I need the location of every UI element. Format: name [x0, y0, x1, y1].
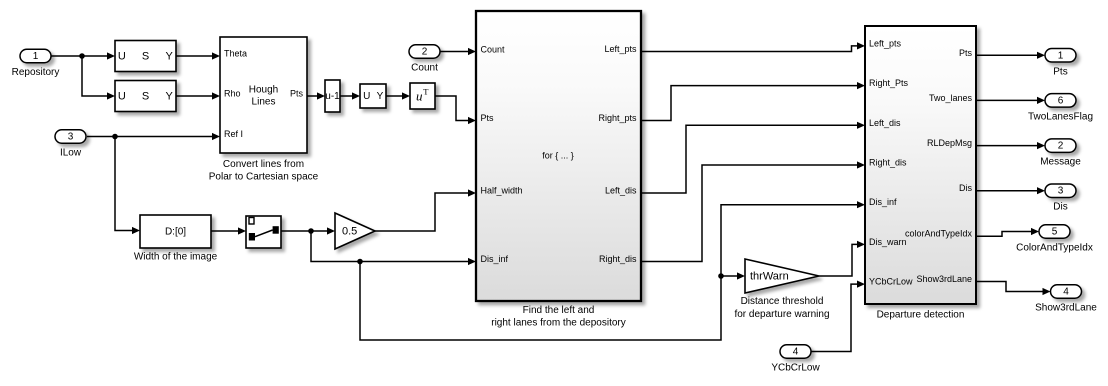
wire Show3rdLane out	[976, 282, 1043, 292]
svg-text:Left_pts: Left_pts	[869, 38, 902, 48]
svg-text:Half_width: Half_width	[481, 186, 523, 196]
selector block U Y	[360, 84, 386, 108]
svg-text:Message: Message	[1040, 157, 1081, 168]
wire Transpose to Pts input	[435, 96, 468, 121]
svg-text:Width of the image: Width of the image	[134, 252, 218, 263]
arrow into port Dis	[1037, 187, 1045, 194]
selector U S Y block 1	[115, 41, 176, 72]
wire Repository to Selector1	[51, 55, 107, 57]
arrow into Departure Right_dis	[857, 161, 865, 168]
svg-text:Show3rdLane: Show3rdLane	[916, 274, 972, 284]
wire RLDepMsg out	[976, 145, 1037, 147]
svg-text:Distance threshold: Distance threshold	[741, 296, 824, 307]
gain block 0.5	[335, 213, 375, 249]
svg-text:2: 2	[422, 47, 428, 58]
svg-text:Right_dis: Right_dis	[599, 254, 637, 264]
arrow into for-block Half_width	[468, 189, 476, 196]
svg-text:Pts: Pts	[481, 113, 495, 123]
junction B on Dis_inf wire	[357, 259, 363, 265]
wire to thrWarn	[721, 275, 737, 277]
outport 1 Pts	[1045, 49, 1076, 63]
wire Selector1 to Theta	[176, 55, 212, 57]
arrow into port Pts	[1037, 52, 1045, 59]
arrow into for-block Count	[468, 48, 476, 55]
arrow into Ref I	[212, 133, 220, 140]
wire Selector3 to Transpose	[386, 95, 402, 97]
svg-text:Dis_inf: Dis_inf	[481, 254, 509, 264]
svg-text:Lines: Lines	[252, 97, 276, 108]
arrow into Departure Dis_inf	[857, 201, 865, 208]
manual switch block	[246, 216, 281, 248]
svg-text:RLDepMsg: RLDepMsg	[927, 138, 972, 148]
wire Dis out	[976, 190, 1037, 192]
wire down to Dis_inf of for-block	[311, 231, 468, 262]
arrow into port Show3rdLane	[1043, 288, 1051, 295]
svg-text:Two_lanes: Two_lanes	[929, 93, 973, 103]
svg-text:Departure detection: Departure detection	[877, 310, 965, 321]
svg-text:4: 4	[1063, 287, 1069, 298]
svg-text:right lanes from the depositor: right lanes from the depository	[491, 318, 626, 329]
svg-text:S: S	[142, 51, 149, 63]
svg-text:Right_dis: Right_dis	[869, 158, 907, 168]
arrow into Gain 0.5	[327, 227, 335, 234]
wire Pts out	[976, 54, 1037, 56]
svg-text:5: 5	[1052, 227, 1058, 238]
svg-text:Ref I: Ref I	[224, 129, 243, 139]
arrow into for-block Dis_inf	[468, 258, 476, 265]
svg-text:Pts: Pts	[290, 89, 304, 99]
svg-text:Pts: Pts	[959, 48, 973, 58]
svg-text:1: 1	[33, 51, 39, 62]
svg-text:U: U	[118, 51, 126, 63]
arrow into port Message	[1037, 142, 1045, 149]
svg-text:u-1: u-1	[325, 91, 340, 102]
svg-text:Theta: Theta	[224, 49, 247, 59]
svg-text:3: 3	[68, 132, 74, 143]
svg-text:TwoLanesFlag: TwoLanesFlag	[1028, 111, 1093, 122]
svg-text:u: u	[416, 89, 423, 104]
svg-text:U: U	[118, 91, 126, 103]
arrow into Selector2	[107, 92, 115, 99]
junction on vertical to thrWarn	[718, 273, 724, 279]
svg-text:Dis_warn: Dis_warn	[869, 237, 907, 247]
arrow into Departure YCbCrLow	[857, 281, 865, 288]
junction Repository branch	[79, 53, 85, 59]
svg-text:0.5: 0.5	[342, 226, 357, 238]
wire YCbCrLow port to Departure	[811, 284, 857, 351]
arrow into Bias u-1	[317, 92, 325, 99]
wire Left_pts	[641, 46, 857, 52]
svg-text:2: 2	[1058, 141, 1064, 152]
svg-text:Repository: Repository	[12, 67, 60, 78]
width block D:[0]	[140, 215, 211, 248]
svg-text:Y: Y	[166, 51, 174, 63]
wire Two_lanes out	[976, 99, 1037, 101]
svg-text:Polar to Cartesian space: Polar to Cartesian space	[209, 172, 319, 183]
arrow into Theta	[212, 52, 220, 59]
svg-text:thrWarn: thrWarn	[750, 271, 789, 283]
arrow into Width block	[132, 227, 140, 234]
inport 4 YCbCrLow	[780, 345, 811, 359]
svg-text:Pts: Pts	[1053, 66, 1067, 77]
wire branch to Selector2	[82, 56, 107, 96]
svg-text:Count: Count	[411, 63, 438, 74]
svg-text:ColorAndTypeIdx: ColorAndTypeIdx	[1016, 243, 1093, 254]
arrow into Transpose	[402, 92, 410, 99]
for-iterator subsystem: Find the left and right lanes	[476, 11, 641, 301]
svg-text:Left_dis: Left_dis	[869, 118, 901, 128]
outport 5 ColorAndTypeIdx	[1039, 225, 1070, 239]
svg-text:Show3rdLane: Show3rdLane	[1035, 303, 1097, 314]
inport 2 Count	[409, 45, 440, 59]
svg-text:Right_Pts: Right_Pts	[869, 78, 909, 88]
svg-text:6: 6	[1058, 95, 1064, 106]
wire Right_dis	[641, 165, 857, 262]
wire switch to gain	[281, 230, 327, 232]
junction A after switch	[308, 228, 314, 234]
wire Left_dis	[641, 125, 857, 193]
arrow into thrWarn	[737, 272, 745, 279]
svg-text:Dis: Dis	[1053, 202, 1067, 213]
svg-text:Hough: Hough	[249, 85, 278, 96]
wire Bias to Selector3	[340, 95, 352, 97]
wire Right_pts	[641, 86, 857, 121]
outport 4 Show3rdLane	[1051, 285, 1082, 299]
svg-text:Left_pts: Left_pts	[604, 44, 637, 54]
svg-text:Convert lines from: Convert lines from	[223, 159, 304, 170]
arrow into Manual Switch	[238, 227, 246, 234]
arrow into port ColorAndTypeIdx	[1031, 228, 1039, 235]
svg-text:Dis_inf: Dis_inf	[869, 197, 897, 207]
svg-text:Y: Y	[377, 91, 384, 102]
svg-text:4: 4	[793, 347, 799, 358]
svg-text:3: 3	[1058, 186, 1064, 197]
svg-text:YCbCrLow: YCbCrLow	[869, 277, 913, 287]
wire Count port to for-block	[440, 51, 468, 53]
wire Pts to Bias	[307, 95, 317, 97]
inport 3 ILow	[55, 130, 86, 144]
arrow into Selector1	[107, 52, 115, 59]
junction ILow branch	[112, 134, 118, 140]
bias block u-1	[325, 80, 340, 112]
svg-text:ILow: ILow	[60, 148, 82, 159]
arrow into Departure Right_Pts	[857, 82, 865, 89]
arrow into Departure Left_dis	[857, 122, 865, 129]
outport 2 Message	[1045, 139, 1076, 153]
wire Gain to Half_width	[375, 193, 468, 231]
wire Selector2 to Rho	[176, 95, 212, 97]
svg-text:Right_pts: Right_pts	[598, 113, 637, 123]
wire ILow down to Width block	[115, 137, 132, 231]
wire Width block to switch	[211, 230, 238, 232]
svg-text:Y: Y	[166, 91, 174, 103]
arrow into Departure Left_pts	[857, 42, 865, 49]
outport 6 TwoLanesFlag	[1045, 94, 1076, 108]
arrow into for-block Pts	[468, 117, 476, 124]
svg-text:Dis: Dis	[959, 183, 972, 193]
math function block transpose uT	[410, 83, 435, 109]
svg-text:colorAndTypeIdx: colorAndTypeIdx	[905, 229, 973, 239]
arrow into port TwoLanesFlag	[1037, 97, 1045, 104]
svg-text:YCbCrLow: YCbCrLow	[771, 363, 820, 374]
svg-text:Rho: Rho	[224, 89, 241, 99]
svg-text:T: T	[423, 87, 429, 97]
inport 1 Repository	[20, 49, 51, 63]
wire thrWarn to Dis_warn	[819, 244, 857, 276]
arrow into Selector3	[352, 92, 360, 99]
long wire to Dis_inf of Departure	[360, 205, 857, 340]
arrow into Departure Dis_warn	[857, 241, 865, 248]
svg-text:U: U	[363, 91, 370, 102]
svg-text:D:[0]: D:[0]	[165, 227, 186, 238]
subsystem Departure detection	[865, 26, 976, 304]
svg-text:1: 1	[1058, 50, 1064, 61]
Hough Lines block	[220, 37, 307, 153]
svg-text:Find the left and: Find the left and	[523, 305, 595, 316]
svg-text:Left_dis: Left_dis	[605, 186, 637, 196]
wire colorAndTypeIdx out	[976, 232, 1031, 237]
outport 3 Dis	[1045, 184, 1076, 198]
svg-text:for { ... }: for { ... }	[542, 151, 574, 161]
selector U S Y block 2	[115, 81, 176, 112]
svg-text:S: S	[142, 91, 149, 103]
svg-text:for departure warning: for departure warning	[734, 309, 829, 320]
svg-text:Count: Count	[481, 45, 506, 55]
arrow into Rho	[212, 92, 220, 99]
gain block thrWarn	[745, 259, 819, 293]
wire ILow to Ref I	[87, 136, 212, 138]
